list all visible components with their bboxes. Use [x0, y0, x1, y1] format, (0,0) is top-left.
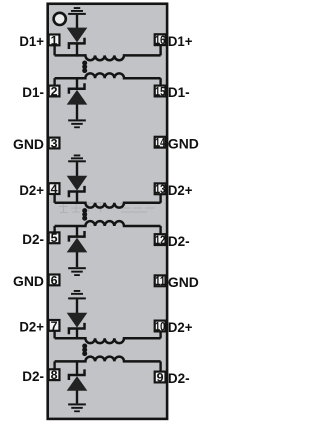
pin 15	[155, 86, 166, 97]
svg-text:D1-: D1-	[22, 84, 44, 100]
svg-text:GND: GND	[168, 274, 199, 290]
pin 4	[49, 183, 60, 194]
svg-text:5: 5	[51, 231, 58, 245]
svg-text:D2+: D2+	[19, 319, 44, 335]
svg-text:D1+: D1+	[168, 33, 193, 49]
pin 12	[155, 234, 166, 245]
svg-text:9: 9	[157, 370, 164, 384]
pin 7	[49, 320, 60, 331]
pin 5	[49, 232, 60, 243]
svg-text:7: 7	[51, 319, 58, 333]
pin 1 indicator circle	[54, 13, 66, 25]
pin 1	[49, 35, 60, 46]
pin 14	[155, 137, 166, 148]
wire: bottom line of channel 1 with inductor winding L1B (arcs up)	[55, 73, 161, 78]
svg-text:D2-: D2-	[22, 368, 44, 384]
wire: bottom line of channel 3 with inductor winding L3B (arcs up)	[55, 357, 161, 362]
svg-text:D2-: D2-	[168, 233, 190, 249]
ground (inverted, above) for TVS diode D2A	[68, 155, 86, 163]
svg-text:4: 4	[51, 182, 58, 196]
svg-text:GND: GND	[13, 136, 44, 152]
svg-text:8: 8	[51, 368, 58, 382]
IC body	[48, 4, 167, 419]
ground (below) for TVS diode D1B	[68, 119, 86, 128]
TVS diode D1A (anode up to ground, zener cathode down to line)	[69, 15, 85, 57]
svg-text:D2+: D2+	[168, 319, 193, 335]
svg-text:15: 15	[155, 84, 165, 98]
svg-text:GND: GND	[168, 135, 199, 151]
coupling dots of choke L3	[82, 344, 87, 357]
svg-text:12: 12	[155, 233, 165, 247]
ground (below) for TVS diode D2B	[68, 267, 86, 276]
pin 11	[155, 275, 166, 286]
pin 6	[49, 275, 60, 286]
svg-text:D1+: D1+	[19, 33, 44, 49]
svg-text:GND: GND	[13, 273, 44, 289]
faint site watermark smudge	[59, 203, 155, 213]
svg-text:D2-: D2-	[168, 370, 190, 386]
svg-text:D2+: D2+	[19, 182, 44, 198]
svg-text:D2-: D2-	[22, 231, 44, 247]
coupling dots of choke L2	[82, 208, 87, 221]
svg-text:D2+: D2+	[168, 182, 193, 198]
svg-text:2: 2	[51, 84, 58, 98]
svg-text:D1-: D1-	[168, 84, 190, 100]
ground (below) for TVS diode D3B	[68, 403, 86, 412]
TVS diode D1B (zener cathode up to line, anode down to ground)	[69, 77, 85, 119]
coupling dots of choke L1	[82, 61, 87, 74]
pin 3	[49, 138, 60, 149]
TVS diode D3B (zener cathode up to line, anode down to ground)	[69, 360, 85, 403]
svg-text:6: 6	[51, 273, 58, 287]
TVS diode D2B (zener cathode up to line, anode down to ground)	[69, 225, 85, 267]
svg-text:1: 1	[51, 33, 58, 47]
pin 2	[49, 86, 60, 97]
wire: top line of channel 3 with inductor winding L3A (arcs down)	[55, 338, 161, 343]
wire stubs from pins to channel lines	[55, 45, 161, 371]
svg-text:13: 13	[155, 182, 165, 196]
svg-text:3: 3	[51, 136, 58, 150]
wire: top line of channel 1 with inductor winding L1A (arcs down)	[55, 55, 161, 60]
wire: top line of channel 2 with inductor winding L2A (arcs down)	[55, 203, 161, 208]
pin 9	[155, 372, 166, 383]
svg-text:16: 16	[155, 33, 165, 47]
svg-text:10: 10	[155, 319, 165, 333]
svg-text:14: 14	[155, 136, 165, 150]
TVS diode D2A (anode up to ground, zener cathode down to line)	[69, 162, 85, 204]
ground (inverted, above) for TVS diode D3A	[68, 290, 86, 299]
svg-text:11: 11	[155, 274, 165, 288]
pin 16	[155, 34, 166, 45]
ground (inverted, above) for TVS diode D1A	[68, 7, 86, 15]
pin 10	[155, 321, 166, 332]
pin 8	[49, 369, 60, 380]
pin 13	[155, 183, 166, 194]
TVS diode D3A (anode up to ground, zener cathode down to line)	[69, 299, 85, 339]
wire: bottom line of channel 2 with inductor winding L2B (arcs up)	[55, 221, 161, 226]
